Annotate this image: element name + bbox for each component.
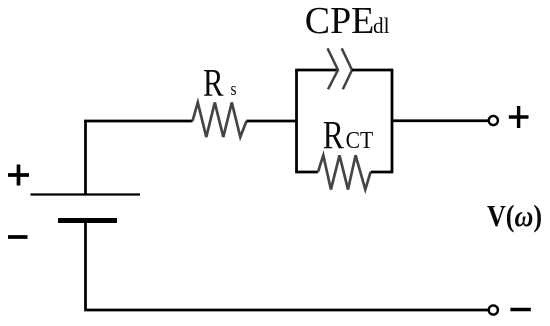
- wire: bottom branch left segment: [295, 171, 318, 174]
- parallel block right vertical wire: [391, 70, 394, 172]
- svg-text:CT: CT: [346, 128, 374, 154]
- battery positive plate (long thin): [31, 193, 141, 195]
- wire: bottom branch right segment: [371, 171, 394, 174]
- svg-text:dl: dl: [373, 13, 390, 38]
- wire: battery positive terminal up to top-left corner and across to Rs: [86, 121, 193, 194]
- svg-text:CPE: CPE: [305, 0, 375, 42]
- resistor RCT zigzag: [318, 155, 371, 189]
- battery negative plate (short thick): [58, 218, 117, 223]
- svg-text:R: R: [203, 62, 224, 105]
- wire: Rs to parallel block: [247, 120, 297, 123]
- positive output terminal circle: [489, 116, 498, 125]
- wire: parallel block to positive output terminal: [392, 119, 488, 122]
- plus sign at positive output: [509, 106, 529, 128]
- plus sign at battery: [8, 165, 29, 186]
- svg-text:s: s: [231, 79, 237, 100]
- wire: top branch right segment: [352, 69, 393, 72]
- minus sign at negative output: [510, 308, 530, 312]
- minus sign at battery: [8, 235, 28, 239]
- CPE element (constant phase element, two chevrons): [328, 48, 353, 89]
- wire: battery negative terminal down and across to negative output terminal: [86, 221, 489, 311]
- svg-text:V(ω): V(ω): [487, 198, 542, 233]
- svg-text:R: R: [323, 113, 344, 158]
- parallel block left vertical wire: [295, 70, 298, 172]
- negative output terminal circle: [489, 305, 498, 314]
- wire: top branch left segment: [295, 69, 338, 72]
- resistor Rs zigzag: [193, 103, 247, 138]
